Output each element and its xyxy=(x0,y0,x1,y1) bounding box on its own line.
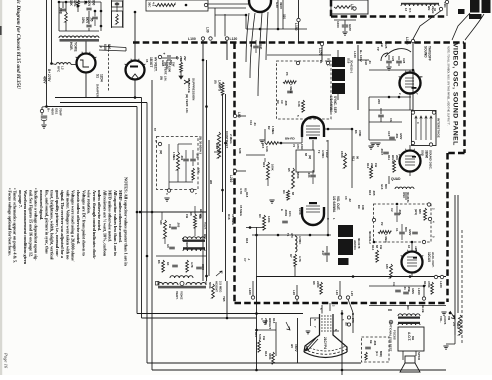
svg-text:R7: R7 xyxy=(289,254,293,258)
svg-text:DAMPER: DAMPER xyxy=(96,84,100,98)
svg-text:(2-1: (2-1 xyxy=(375,351,379,356)
svg-text:T1: T1 xyxy=(286,233,290,237)
svg-text:C28: C28 xyxy=(402,58,406,64)
svg-text:R13: R13 xyxy=(272,318,276,324)
svg-text:L15: L15 xyxy=(350,291,354,296)
svg-text:R12: R12 xyxy=(366,163,370,169)
svg-text:400V: 400V xyxy=(43,76,47,84)
svg-text:15 MEG: 15 MEG xyxy=(239,205,243,217)
svg-text:VID. OUT.: VID. OUT. xyxy=(336,196,340,210)
svg-text:1W: 1W xyxy=(172,62,176,67)
svg-text:VOL.: VOL. xyxy=(439,316,443,323)
svg-text:W2: W2 xyxy=(209,180,213,185)
svg-text:BL-WH: BL-WH xyxy=(199,209,203,218)
svg-text:Voltages are DC from point sho: Voltages are DC from point shown to xyxy=(81,190,86,257)
svg-text:1B3GT: 1B3GT xyxy=(149,57,153,67)
svg-text:(B) 30-6094-1: (B) 30-6094-1 xyxy=(199,136,203,154)
svg-text:VIDEO, OSC, SOUND PANEL: VIDEO, OSC, SOUND PANEL xyxy=(452,43,459,146)
svg-text:R12: R12 xyxy=(264,351,268,357)
svg-text:1K: 1K xyxy=(166,262,170,265)
svg-text:SOUND DISC.: SOUND DISC. xyxy=(429,150,433,170)
svg-text:G13: G13 xyxy=(380,184,384,190)
svg-text:86: 86 xyxy=(356,156,360,160)
svg-text:E: E xyxy=(280,209,284,211)
svg-text:RD: RD xyxy=(388,308,392,312)
svg-text:C1: C1 xyxy=(395,228,399,232)
svg-text:15: 15 xyxy=(145,59,149,63)
svg-text:330: 330 xyxy=(159,220,163,225)
svg-text:L150: L150 xyxy=(294,23,298,31)
svg-text:15KV: 15KV xyxy=(294,344,298,352)
svg-text:SOUND: SOUND xyxy=(424,46,428,58)
svg-text:L20: L20 xyxy=(292,290,296,295)
svg-text:All capacitor values less than: All capacitor values less than 1 are in xyxy=(113,190,118,256)
svg-text:chassis unless otherwise noted: chassis unless otherwise noted. xyxy=(76,190,81,244)
svg-text:470: 470 xyxy=(296,144,300,149)
svg-text:.05: .05 xyxy=(90,17,94,22)
svg-text:WHT: WHT xyxy=(215,143,219,150)
svg-text:600: 600 xyxy=(404,227,408,232)
svg-text:(B): (B) xyxy=(160,76,164,80)
svg-text:2W: 2W xyxy=(183,56,187,61)
svg-text:NOTES: All capacitor values g: NOTES: All capacitor values greater than… xyxy=(124,177,129,266)
svg-text:GMV: GMV xyxy=(411,288,415,294)
svg-text:470K: 470K xyxy=(427,281,431,288)
svg-text:GMV: GMV xyxy=(348,24,352,31)
svg-text:3.3K: 3.3K xyxy=(297,101,301,107)
svg-text:SPKR: SPKR xyxy=(417,352,421,361)
svg-text:.005: .005 xyxy=(372,190,376,196)
svg-text:INTERSTAGE: INTERSTAGE xyxy=(437,118,441,138)
svg-text:1 MEG: 1 MEG xyxy=(271,126,275,134)
svg-text:1B: 1B xyxy=(369,340,373,343)
svg-text:HEIGHT: HEIGHT xyxy=(215,281,219,292)
svg-text:.008: .008 xyxy=(284,100,288,106)
svg-text:5.6K: 5.6K xyxy=(258,334,262,340)
svg-text:180: 180 xyxy=(385,264,389,269)
svg-text:15 MEG: 15 MEG xyxy=(231,214,235,226)
svg-text:L160: L160 xyxy=(405,37,409,45)
svg-text:15Ω: 15Ω xyxy=(300,144,304,150)
svg-text:R4: R4 xyxy=(282,190,286,194)
svg-text:1/2 6AW8A: 1/2 6AW8A xyxy=(329,96,333,113)
svg-text:BN-RD: BN-RD xyxy=(285,137,295,141)
svg-text:4-2: 4-2 xyxy=(152,2,156,7)
svg-text:R15: R15 xyxy=(261,143,265,149)
svg-text:(W1): (W1) xyxy=(414,209,418,215)
svg-text:450V: 450V xyxy=(51,108,55,115)
svg-text:1/2 6AW8A: 1/2 6AW8A xyxy=(332,196,336,213)
svg-text:S1: S1 xyxy=(96,74,100,78)
svg-text:1W: 1W xyxy=(168,224,172,228)
svg-text:BRIGHT: BRIGHT xyxy=(268,318,272,329)
svg-text:atic Diagram for Chassis 8L35: atic Diagram for Chassis 8L35 and 8L35U xyxy=(15,0,21,90)
svg-text:R3: R3 xyxy=(258,214,262,218)
svg-text:220K: 220K xyxy=(316,281,320,288)
svg-text:.05B: .05B xyxy=(407,286,411,292)
svg-text:BN: BN xyxy=(427,6,431,10)
svg-text:600: 600 xyxy=(92,0,96,6)
svg-text:TP: TP xyxy=(376,47,380,51)
svg-text:19V6: 19V6 xyxy=(298,208,302,215)
svg-text:1KV: 1KV xyxy=(87,0,91,7)
svg-text:L120: L120 xyxy=(230,37,238,41)
svg-text:R16: R16 xyxy=(245,238,249,244)
svg-text:L170: L170 xyxy=(318,48,322,56)
svg-text:CONTRAST: CONTRAST xyxy=(225,131,229,148)
svg-text:R1: R1 xyxy=(319,60,323,64)
svg-text:6U8: 6U8 xyxy=(103,44,107,50)
svg-text:1B: 1B xyxy=(380,43,384,47)
svg-text:HV: HV xyxy=(290,344,294,348)
svg-text:L230: L230 xyxy=(439,281,443,288)
svg-text:R11: R11 xyxy=(387,155,391,160)
svg-text:C4: C4 xyxy=(392,282,396,286)
svg-text:B7: B7 xyxy=(175,56,179,60)
svg-text:• Indicates a voltage dependen: • Indicates a voltage dependent upon sig… xyxy=(34,188,39,261)
svg-text:L100: L100 xyxy=(188,37,196,41)
svg-text:OPTIONAL FOR BEST: OPTIONAL FOR BEST xyxy=(389,322,393,352)
svg-text:3D-6178: 3D-6178 xyxy=(357,238,361,249)
svg-text:1 MEG: 1 MEG xyxy=(384,234,388,243)
svg-text:12D4: 12D4 xyxy=(100,74,104,82)
svg-text:1W: 1W xyxy=(185,214,189,218)
svg-text:OSC: OSC xyxy=(402,192,406,199)
svg-text:.047: .047 xyxy=(321,250,325,256)
svg-text:10%: 10% xyxy=(288,211,292,217)
svg-text:AUDIO: AUDIO xyxy=(353,240,357,250)
svg-text:680K: 680K xyxy=(296,172,300,179)
svg-text:R19: R19 xyxy=(262,162,266,168)
svg-text:• Tuner schematics appear on p: • Tuner schematics appear on pages 4 & 5… xyxy=(13,188,18,263)
svg-text:C9: C9 xyxy=(280,100,284,104)
svg-text:YOKE: YOKE xyxy=(180,291,184,300)
svg-text:VM: VM xyxy=(447,316,451,321)
svg-text:C7: C7 xyxy=(243,258,247,262)
svg-text:10%: 10% xyxy=(81,17,85,24)
svg-text:8Ω: 8Ω xyxy=(411,336,415,341)
svg-text:measured signal.: measured signal. xyxy=(39,190,44,220)
svg-text:R8: R8 xyxy=(312,281,316,285)
svg-text:R6: R6 xyxy=(157,260,161,264)
svg-text:16: 16 xyxy=(407,245,411,249)
svg-text:C15: C15 xyxy=(387,131,391,137)
svg-text:4.7K: 4.7K xyxy=(298,256,302,262)
svg-text:Voltages were read using a 20,: Voltages were read using a 20,000 ohms/ xyxy=(71,190,76,262)
svg-text:R9: R9 xyxy=(276,100,280,104)
svg-text:C25: C25 xyxy=(384,43,388,49)
svg-text:L140: L140 xyxy=(353,51,357,58)
svg-text:All resistors are ½ watt, 10%,: All resistors are ½ watt, 10%, carbon xyxy=(102,190,107,257)
svg-text:10K: 10K xyxy=(361,205,365,210)
svg-text:3D-6151: 3D-6151 xyxy=(406,192,410,203)
svg-text:C30: C30 xyxy=(249,42,253,47)
svg-text:87: 87 xyxy=(153,128,157,131)
svg-text:signal. The receiver was adjus: signal. The receiver was adjusted for a xyxy=(60,190,65,259)
svg-text:R11: R11 xyxy=(254,332,258,337)
svg-text:.01: .01 xyxy=(253,122,257,126)
svg-text:L30: L30 xyxy=(206,27,210,33)
svg-text:.0047: .0047 xyxy=(380,148,384,155)
svg-text:SUPPRESSION: SUPPRESSION xyxy=(192,78,196,101)
svg-text:HV RECT.: HV RECT. xyxy=(154,57,158,72)
svg-text:(B): (B) xyxy=(345,322,348,326)
svg-text:L2: L2 xyxy=(61,66,65,70)
svg-text:V.T.: V.T. xyxy=(408,8,412,13)
svg-text:NOTE: TO ALL SYMBOL NOS. ON TH: NOTE: TO ALL SYMBOL NOS. ON THIS PANEL, … xyxy=(447,46,450,126)
svg-text:3D-6181-2: 3D-6181-2 xyxy=(368,231,372,244)
svg-text:VERT.: VERT. xyxy=(175,291,179,300)
svg-text:.033: .033 xyxy=(307,172,311,178)
svg-text:C26: C26 xyxy=(391,56,395,62)
svg-text:HOR.: HOR. xyxy=(69,42,73,51)
svg-text:nal. See Figures 15 and 16 on: nal. See Figures 15 and 16 on page 12. xyxy=(28,190,33,257)
svg-text:2.5 MEG: 2.5 MEG xyxy=(219,281,223,293)
svg-text:4.7K: 4.7K xyxy=(239,188,243,195)
svg-text:L180: L180 xyxy=(248,288,252,295)
svg-text:21CYP4: 21CYP4 xyxy=(323,337,327,349)
svg-text:Y.O.T.: Y.O.T. xyxy=(203,222,207,230)
svg-text:GMV: GMV xyxy=(399,133,403,140)
svg-text:C8: C8 xyxy=(344,196,348,200)
svg-text:74: 74 xyxy=(292,144,296,148)
svg-text:YB5: YB5 xyxy=(222,296,226,302)
svg-text:R14: R14 xyxy=(371,245,375,251)
svg-text:.006: .006 xyxy=(373,340,377,346)
svg-text:L210: L210 xyxy=(229,175,233,182)
svg-text:10%: 10% xyxy=(73,0,77,7)
svg-text:MFD unless otherwise noted.: MFD unless otherwise noted. xyxy=(108,190,113,242)
svg-text:Arrow through control indicate: Arrow through control indicates clock- xyxy=(92,190,97,260)
svg-text:(W): (W) xyxy=(308,155,312,159)
svg-text:13: 13 xyxy=(404,8,408,12)
svg-text:390V: 390V xyxy=(279,2,283,9)
svg-text:.005: .005 xyxy=(177,222,181,228)
svg-text:120K: 120K xyxy=(267,216,271,223)
svg-text:wise rotation.: wise rotation. xyxy=(87,190,92,214)
svg-text:MID): MID) xyxy=(379,351,383,357)
svg-text:1W: 1W xyxy=(379,245,383,250)
svg-text:3000: 3000 xyxy=(201,264,205,270)
svg-text:C14: C14 xyxy=(249,120,253,125)
svg-text:(8): (8) xyxy=(214,80,218,84)
svg-text:P3: P3 xyxy=(285,72,289,76)
svg-text:100K: 100K xyxy=(271,164,275,171)
svg-text:BLUE: BLUE xyxy=(421,305,425,313)
svg-text:P2: P2 xyxy=(380,222,384,226)
svg-text:C2: C2 xyxy=(390,208,394,212)
svg-text:YOKE: YOKE xyxy=(74,42,78,52)
svg-text:C22: C22 xyxy=(364,60,368,65)
svg-text:W-1200: W-1200 xyxy=(168,62,172,72)
svg-text:(W): (W) xyxy=(159,150,163,154)
svg-text:R9: R9 xyxy=(357,205,361,209)
svg-text:GMV: GMV xyxy=(408,229,412,236)
svg-text:volt meter. Voltages were take: volt meter. Voltages were taken with no xyxy=(65,190,70,260)
svg-text:R16: R16 xyxy=(227,214,231,220)
svg-text:150K: 150K xyxy=(340,151,344,159)
svg-text:1W: 1W xyxy=(262,336,266,341)
svg-text:.001: .001 xyxy=(395,133,399,139)
svg-text:B+: B+ xyxy=(47,108,51,112)
svg-text:GB1: GB1 xyxy=(55,108,59,115)
svg-text:68: 68 xyxy=(291,192,295,196)
svg-text:(B) VERT. LIN.: (B) VERT. LIN. xyxy=(164,62,168,81)
svg-text:FOCUS: FOCUS xyxy=(393,330,397,340)
svg-text:MMF unless otherwise noted.: MMF unless otherwise noted. xyxy=(118,190,123,243)
svg-text:330K: 330K xyxy=(268,353,272,360)
svg-text:unless otherwise noted.: unless otherwise noted. xyxy=(97,190,102,231)
svg-text:R6: R6 xyxy=(354,130,358,134)
svg-text:70MF: 70MF xyxy=(59,108,63,116)
svg-text:on page 7.: on page 7. xyxy=(18,190,23,208)
svg-text:T2: T2 xyxy=(317,150,321,154)
svg-text:.02: .02 xyxy=(348,198,352,202)
svg-text:R18: R18 xyxy=(245,192,249,198)
svg-text:TAKEOFF: TAKEOFF xyxy=(428,46,432,61)
svg-text:R11: R11 xyxy=(352,156,356,161)
svg-text:good quality picture; i.e., no: good quality picture; i.e., normal con- xyxy=(55,190,60,257)
svg-text:R2: R2 xyxy=(267,126,271,130)
svg-text:.01: .01 xyxy=(368,60,372,64)
svg-text:.002: .002 xyxy=(180,155,184,161)
svg-text:S5B: S5B xyxy=(421,150,425,157)
svg-text:lin., and sound, picture in sy: lin., and sound, picture in sync, thus xyxy=(44,190,49,254)
svg-text:10K: 10K xyxy=(197,168,201,173)
svg-text:BUZZ: BUZZ xyxy=(391,155,395,163)
svg-text:600: 600 xyxy=(384,184,388,189)
svg-text:470: 470 xyxy=(290,233,294,238)
svg-text:QUAD: QUAD xyxy=(391,177,401,181)
svg-text:3.9K: 3.9K xyxy=(265,146,269,152)
svg-text:SYNC. SEP.: SYNC. SEP. xyxy=(333,96,337,114)
svg-text:8KV: 8KV xyxy=(85,17,89,24)
svg-text:470K: 470K xyxy=(358,130,362,136)
svg-text:3BN6: 3BN6 xyxy=(425,150,429,158)
svg-text:15K: 15K xyxy=(69,0,73,7)
svg-text:22μH: 22μH xyxy=(431,6,435,13)
svg-text:Waveform measurement condition: Waveform measurement conditions given xyxy=(23,190,28,265)
svg-text:2.5: 2.5 xyxy=(452,322,456,326)
svg-text:.0039: .0039 xyxy=(284,209,288,216)
svg-text:AUD. OUT.: AUD. OUT. xyxy=(431,252,435,268)
svg-text:6.8K: 6.8K xyxy=(238,148,242,154)
svg-text:L80: L80 xyxy=(237,112,241,118)
svg-text:36C: 36C xyxy=(148,2,152,8)
svg-text:A.O.T.: A.O.T. xyxy=(407,332,411,341)
svg-text:trast, brightness, width, heig: trast, brightness, width, height, vertic… xyxy=(50,190,55,260)
svg-text:4.5MC: 4.5MC xyxy=(298,236,302,244)
svg-text:68: 68 xyxy=(375,245,379,249)
svg-text:3D-6315-1: 3D-6315-1 xyxy=(350,60,354,74)
svg-text:4.7K: 4.7K xyxy=(190,262,194,268)
svg-text:1W: 1W xyxy=(374,163,378,168)
svg-text:R15: R15 xyxy=(423,281,427,287)
svg-text:R10: R10 xyxy=(368,190,372,196)
svg-text:.005: .005 xyxy=(398,209,402,215)
svg-text:(B) VERT. LIN.: (B) VERT. LIN. xyxy=(185,94,189,113)
svg-text:RFC: RFC xyxy=(57,66,61,73)
svg-text:(A2): (A2) xyxy=(259,44,263,49)
svg-text:R5: R5 xyxy=(244,188,248,192)
svg-text:S19: S19 xyxy=(333,60,337,65)
svg-text:2 MEG: 2 MEG xyxy=(229,134,233,144)
svg-text:CONT.: CONT. xyxy=(443,316,447,325)
svg-text:R5: R5 xyxy=(287,168,291,172)
svg-text:C6: C6 xyxy=(389,118,393,122)
svg-text:• Focus voltage optional for b: • Focus voltage optional for best focus. xyxy=(7,188,12,256)
svg-text:4.5MC: 4.5MC xyxy=(321,150,325,158)
svg-text:12CA5: 12CA5 xyxy=(427,252,431,262)
svg-text:.01: .01 xyxy=(403,286,407,290)
svg-text:20K: 20K xyxy=(395,155,399,160)
svg-text:1000: 1000 xyxy=(336,21,340,28)
svg-text:68: 68 xyxy=(304,153,308,157)
svg-text:G8: G8 xyxy=(166,244,170,248)
svg-text:200: 200 xyxy=(377,99,381,104)
svg-text:Page 16: Page 16 xyxy=(4,352,9,369)
svg-text:L10: L10 xyxy=(335,290,339,295)
svg-text:B+ 275V: B+ 275V xyxy=(47,69,51,82)
svg-text:1 MEG: 1 MEG xyxy=(172,152,176,160)
svg-text:L190: L190 xyxy=(417,288,421,295)
svg-text:R8: R8 xyxy=(189,212,193,216)
